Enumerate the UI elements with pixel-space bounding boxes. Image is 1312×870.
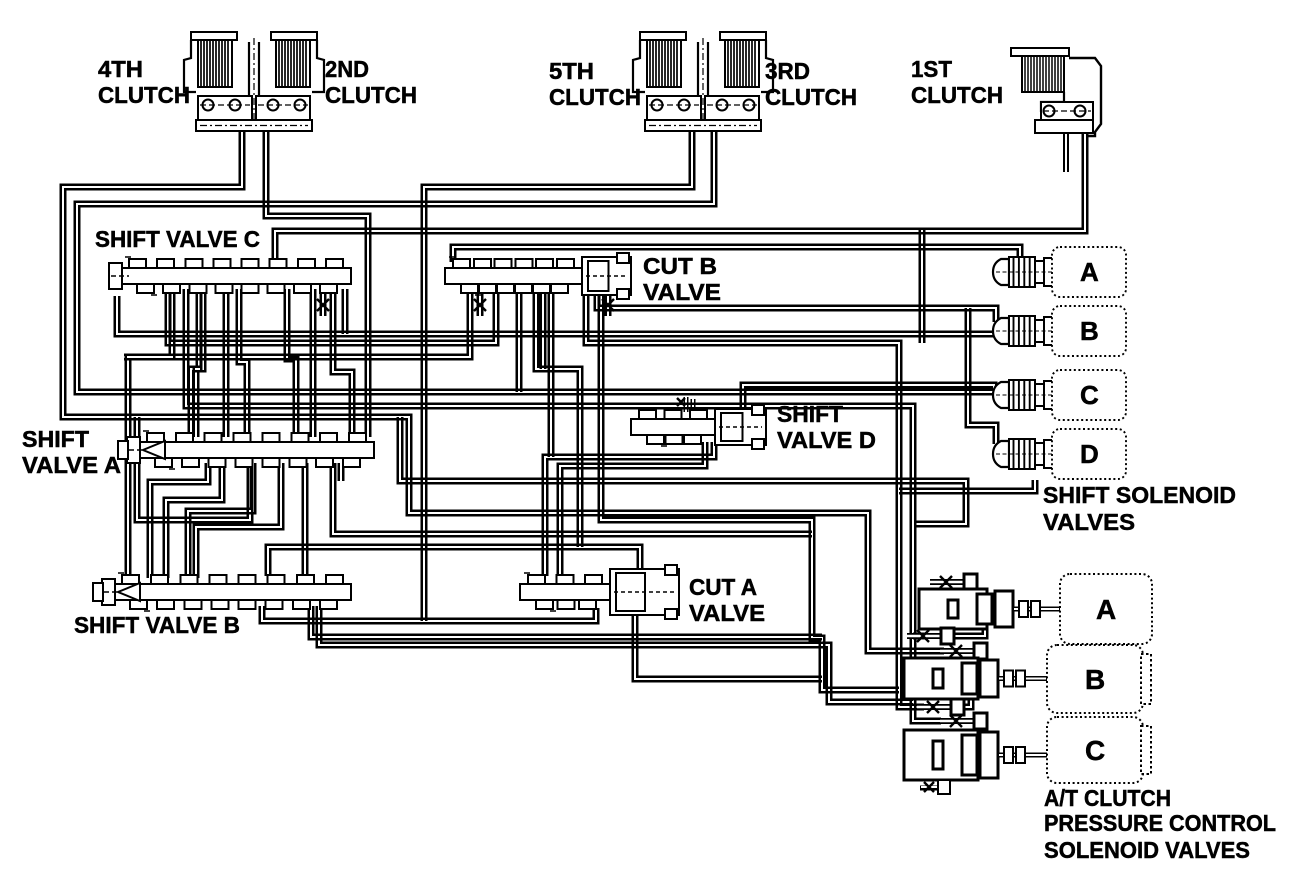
A/T clutch pressure control solenoid C housing xyxy=(904,717,1151,783)
check valve above A/T solenoid C xyxy=(940,713,987,729)
shift valve B body xyxy=(93,573,351,611)
wire check below B to assembly B drain xyxy=(952,698,973,709)
wire valve C to valve A jog 1 xyxy=(194,289,205,437)
wire branch bus417 to shift valve A left port xyxy=(135,417,252,522)
wire valve D vent stub 1 xyxy=(684,397,688,412)
svg-text:SHIFT: SHIFT xyxy=(22,426,89,452)
4TH and 2ND clutch symbol xyxy=(184,32,324,131)
label SHIFT VALVE C xyxy=(95,226,260,252)
cross mark under valve C xyxy=(317,299,329,311)
wire valve A to valve B 2 xyxy=(164,463,224,578)
wire valve B port via x829 to v3 xyxy=(317,606,913,704)
wire cut B to shift solenoid B and D feed xyxy=(595,289,998,322)
svg-text:VALVE A: VALVE A xyxy=(22,452,121,478)
wire 1ST clutch to shift valve C top bus xyxy=(273,126,1087,258)
shift solenoid valve C xyxy=(993,370,1126,420)
5TH and 3RD clutch symbol xyxy=(633,32,773,131)
svg-text:3RD: 3RD xyxy=(765,58,810,84)
wire valve A to valve B 3 xyxy=(186,463,255,578)
check valve below A/T solenoid B xyxy=(917,699,964,715)
A/T clutch pressure control solenoid B housing xyxy=(904,645,1151,713)
wire valve C stub with cross xyxy=(321,289,325,316)
svg-text:SHIFT VALVE C: SHIFT VALVE C xyxy=(95,226,260,252)
wire cut B port via bus y343 to check below B xyxy=(584,291,924,709)
svg-text:B: B xyxy=(1080,316,1099,346)
svg-text:VALVE: VALVE xyxy=(643,279,721,305)
wire cut B port via x812 corridor to pressure zone xyxy=(599,289,899,692)
svg-text:4TH: 4TH xyxy=(98,56,143,82)
cross mark under cut B right xyxy=(602,299,614,311)
label SHIFT SOLENOID VALVES xyxy=(1043,482,1236,535)
svg-text:C: C xyxy=(1085,735,1105,766)
wire shift valve C to shift solenoid B bus y334 xyxy=(115,296,1024,336)
shift solenoid valve A xyxy=(993,247,1126,297)
label 2ND CLUTCH xyxy=(325,56,417,108)
A/T clutch pressure control solenoid A housing xyxy=(919,574,1152,644)
svg-text:VALVES: VALVES xyxy=(1043,509,1135,535)
cross mark at valve D vent xyxy=(677,398,685,406)
svg-text:CLUTCH: CLUTCH xyxy=(325,82,417,108)
wire 4TH clutch along bus417 to A/T solenoid B check xyxy=(61,118,944,653)
wire valve C to valve A jog 2 xyxy=(189,289,201,437)
svg-text:SOLENOID VALVES: SOLENOID VALVES xyxy=(1044,837,1250,863)
wire valve B port to x822 corridor xyxy=(309,606,822,639)
svg-text:CLUTCH: CLUTCH xyxy=(765,84,857,110)
svg-text:SHIFT: SHIFT xyxy=(777,401,843,427)
wire v3 branch to A/T solenoid A lower check xyxy=(913,634,926,638)
shift solenoid valve D xyxy=(993,429,1126,479)
wire bus y229 to bus y343 link xyxy=(920,229,924,343)
shift valve D body xyxy=(631,405,766,449)
svg-text:D: D xyxy=(1080,439,1099,469)
svg-text:C: C xyxy=(1080,380,1099,410)
wire valve C right jog to valve A xyxy=(331,289,354,437)
wire valve D to shift solenoid C upper feed xyxy=(741,383,996,412)
check valve below A/T solenoid A xyxy=(907,628,954,644)
wire cut B stub 2 with cross xyxy=(606,289,610,316)
wire 3RD clutch to shift solenoid C feed bus xyxy=(75,116,995,394)
wire check above C into assembly C xyxy=(976,719,985,738)
wire valve D to cut A valve 2 xyxy=(543,442,716,576)
wire cut A valve to x822 corridor xyxy=(633,608,822,681)
wire solenoid D drain xyxy=(899,480,1037,493)
wire valve B to cut A valve bus y547 xyxy=(266,545,642,576)
svg-text:SHIFT SOLENOID: SHIFT SOLENOID xyxy=(1043,482,1236,508)
shift solenoid valve B xyxy=(993,306,1126,356)
shift valve C body xyxy=(109,257,351,295)
wire valve C right end to bus y334 xyxy=(343,289,347,334)
wire cut B port to bus y547 xyxy=(534,289,582,547)
svg-text:VALVE D: VALVE D xyxy=(777,427,876,453)
label SHIFT VALVE A xyxy=(22,426,121,478)
svg-text:CLUTCH: CLUTCH xyxy=(549,84,641,110)
wire valve C to valve A straight xyxy=(224,289,228,437)
wire valve A bus y534 to pressure column xyxy=(331,463,812,536)
wire solenoid B-D link xyxy=(966,308,998,444)
wire cut B valve to shift solenoid A feed bus xyxy=(451,245,1022,266)
wire 2ND clutch to shift valve A right port xyxy=(264,118,370,437)
wire valve A to valve B straight xyxy=(303,463,307,578)
wire check into assembly B xyxy=(974,649,987,664)
svg-text:CUT B: CUT B xyxy=(643,253,717,279)
svg-text:PRESSURE CONTROL: PRESSURE CONTROL xyxy=(1044,810,1276,836)
cross mark under cut B left xyxy=(474,299,486,311)
wire valve A stub to bus y481 xyxy=(339,463,343,481)
label 3RD CLUTCH xyxy=(765,58,857,110)
check valve below A/T solenoid C xyxy=(920,780,950,794)
wire 5TH clutch down left column to lower bus xyxy=(422,116,694,621)
wire valve C right port jog xyxy=(285,289,298,437)
svg-text:5TH: 5TH xyxy=(549,58,594,84)
svg-text:VALVE: VALVE xyxy=(689,600,765,626)
wire valve A to valve B 1 xyxy=(148,463,210,578)
wire cut B stub with cross xyxy=(478,289,482,316)
svg-text:CLUTCH: CLUTCH xyxy=(911,82,1003,108)
label CUT A VALVE xyxy=(689,574,765,626)
svg-text:A/T CLUTCH: A/T CLUTCH xyxy=(1044,785,1171,811)
svg-text:A: A xyxy=(1096,594,1116,625)
wire 1ST clutch stub xyxy=(1064,126,1068,172)
wire cut B port long down xyxy=(549,289,553,457)
wire valve C right straight xyxy=(311,289,315,437)
wire cut B port down 2 xyxy=(541,289,545,369)
svg-text:B: B xyxy=(1085,664,1105,695)
wire valve D to cut A valve 1 xyxy=(558,442,707,576)
svg-text:2ND: 2ND xyxy=(325,56,369,82)
check valve above A/T solenoid A xyxy=(930,574,977,590)
label 5TH CLUTCH xyxy=(549,58,641,110)
wire valve C port to valve B left (via y357) xyxy=(126,289,174,578)
wire valve C to cut B U-link at y343 xyxy=(166,291,498,345)
wire cut B valve port to y357 bus xyxy=(124,289,472,359)
label SHIFT VALVE B xyxy=(74,612,240,638)
label A/T CLUTCH PRESSURE CONTROL SOLENOID VALVES xyxy=(1044,785,1276,863)
wire bus y481 loop xyxy=(398,417,968,526)
wire shift valve B to cut A valve lower bus xyxy=(260,606,598,623)
svg-text:1ST: 1ST xyxy=(911,56,952,82)
svg-text:A: A xyxy=(1080,257,1099,287)
svg-text:CUT A: CUT A xyxy=(689,574,757,600)
label 4TH CLUTCH xyxy=(98,56,190,108)
cut B valve body xyxy=(445,253,631,299)
check valve above A/T solenoid B xyxy=(940,643,987,659)
svg-text:SHIFT VALVE B: SHIFT VALVE B xyxy=(74,612,240,638)
wire valve D vent stub 2 xyxy=(691,399,695,412)
cut A valve body xyxy=(520,565,679,619)
1ST clutch symbol xyxy=(1011,48,1101,136)
wire valve C via bus y406 to pressure control column v3 xyxy=(184,289,941,723)
label SHIFT VALVE D xyxy=(777,401,876,453)
svg-text:CLUTCH: CLUTCH xyxy=(98,82,190,108)
label CUT B VALVE xyxy=(643,253,721,305)
shift valve A body xyxy=(118,431,374,469)
wire cut B port to bus y392 xyxy=(517,289,521,392)
label 1ST CLUTCH xyxy=(911,56,1003,108)
wire check to A/T solenoid A housing xyxy=(950,627,987,638)
wire valve A to valve B 4 xyxy=(194,463,283,578)
wire valve C to valve A jog 3 xyxy=(237,289,249,437)
